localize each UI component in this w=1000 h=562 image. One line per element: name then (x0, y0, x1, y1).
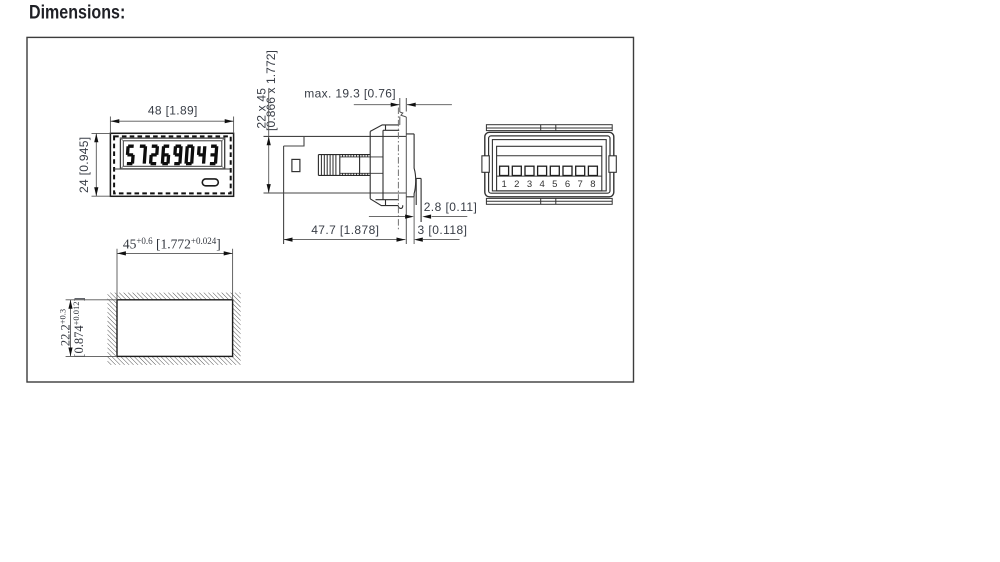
cutout left dim arrows (68, 300, 72, 356)
flange front extension line (413, 197, 415, 244)
break squiggle (400, 112, 407, 117)
line under lcd (114, 168, 231, 170)
terminal block (497, 146, 602, 191)
dim max 19.3 lines (354, 104, 452, 106)
dim 2.8 lines (369, 216, 467, 218)
svg-text:6: 6 (565, 179, 570, 190)
clamp knurl lines (321, 155, 336, 176)
cutout rect (117, 300, 233, 357)
cutout left dim line (66, 300, 117, 357)
thread ticks (343, 155, 368, 176)
svg-text:47.7 [1.878]: 47.7 [1.878] (311, 223, 379, 237)
cutout top dim arrows (117, 251, 232, 255)
svg-text:8: 8 (590, 179, 595, 190)
dim 3 right arrow (414, 238, 423, 242)
reset button oval (202, 179, 218, 186)
lcd window inner (123, 141, 222, 167)
rear third rect (492, 140, 606, 191)
svg-text:24 [0.945]: 24 [0.945] (77, 137, 91, 193)
dim 48 line (110, 117, 233, 134)
dim 2.8 arrows (405, 215, 431, 219)
clamp nut lines (340, 155, 360, 176)
rear bottom bar (486, 198, 612, 204)
terminal numbers 1-8 (501, 179, 595, 190)
lcd bevel corner ticks (120, 138, 224, 169)
terminal squares (500, 166, 598, 175)
dim 24 line (92, 133, 111, 196)
svg-text:3 [0.118]: 3 [0.118] (418, 223, 468, 237)
panel centerline dash-dot (397, 108, 399, 232)
rear outer rounded rect (485, 132, 614, 197)
rear top bar (486, 125, 612, 131)
svg-text:45+0.6 [1.772+0.024]: 45+0.6 [1.772+0.024] (123, 236, 221, 252)
svg-text:2.8 [0.11]: 2.8 [0.11] (424, 200, 478, 214)
side small rect (292, 159, 300, 171)
dim 48 arrows (111, 119, 234, 123)
svg-text:5: 5 (552, 179, 557, 190)
side body top edge (264, 135, 407, 137)
svg-text:1: 1 (501, 179, 506, 190)
front dashed bezel outline (114, 136, 231, 193)
svg-text:4: 4 (539, 179, 544, 190)
dim 3 tail (423, 239, 460, 241)
side body notch (284, 136, 304, 146)
terminal block divider (497, 155, 602, 157)
cutout top dim line (117, 249, 233, 300)
lcd digits 57269043 (127, 146, 217, 163)
frame border (27, 37, 634, 382)
svg-text:[0.866 x 1.772]: [0.866 x 1.772] (264, 50, 278, 131)
dim max 19.3 arrows (391, 103, 416, 107)
lcd bezel outer (120, 138, 224, 169)
rear inner rounded rect (489, 136, 610, 193)
dim 47.7 arrows (284, 238, 406, 242)
svg-text:3: 3 (527, 179, 532, 190)
front button tab (416, 178, 421, 222)
front flange outline (406, 134, 415, 197)
panel lines with break (400, 98, 407, 244)
hatch band around cutout (108, 293, 241, 365)
svg-text:2: 2 (514, 179, 519, 190)
gasket hook bottom right (398, 205, 403, 208)
dim 22x45 line (268, 89, 270, 193)
bezel outline (370, 125, 403, 209)
dim 24 arrows (94, 134, 98, 197)
svg-text:48 [1.89]: 48 [1.89] (148, 104, 198, 118)
clamp knob outline (318, 155, 370, 176)
dim 22x45 arrows (267, 137, 271, 193)
svg-text:7: 7 (578, 179, 583, 190)
right mounting tab (609, 156, 616, 173)
side body bottom edge (264, 192, 407, 194)
svg-text:Dimensions:: Dimensions: (29, 1, 125, 23)
left mounting tab (482, 156, 489, 173)
bezel inner lines (376, 130, 400, 199)
svg-text:[0.874+0.012]: [0.874+0.012] (71, 297, 86, 357)
terminal block shelf (497, 175, 602, 177)
svg-text:max. 19.3 [0.76]: max. 19.3 [0.76] (304, 87, 396, 101)
front outer case (110, 133, 233, 196)
thread root lines (340, 157, 383, 173)
dim 47.7 line (284, 239, 406, 241)
side body left edge / 47.7 extension (283, 146, 285, 244)
